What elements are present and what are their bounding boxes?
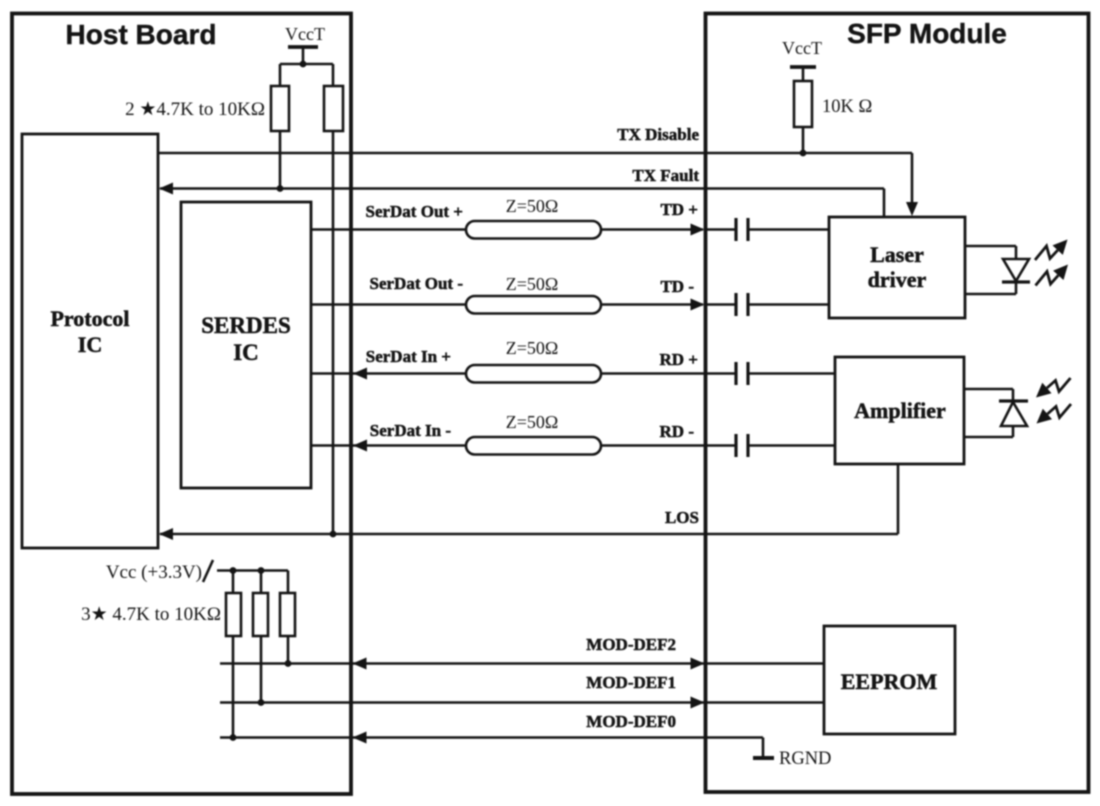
svg-text:TX Fault: TX Fault [632,166,699,185]
svg-text:RD +: RD + [660,350,699,369]
svg-text:10K Ω: 10K Ω [822,97,872,117]
svg-text:IC: IC [233,340,259,365]
svg-text:TD -: TD - [660,277,694,296]
svg-text:driver: driver [868,267,927,292]
svg-text:Vcc (+3.3V): Vcc (+3.3V) [106,562,202,583]
svg-text:EEPROM: EEPROM [841,669,938,694]
svg-text:MOD-DEF1: MOD-DEF1 [586,673,676,692]
svg-text:VccT: VccT [782,38,822,58]
svg-text:Z=50Ω: Z=50Ω [506,338,559,358]
svg-text:SerDat Out +: SerDat Out + [365,202,463,221]
svg-text:TD +: TD + [660,200,698,219]
svg-text:Z=50Ω: Z=50Ω [506,274,559,294]
svg-text:SERDES: SERDES [201,313,290,338]
svg-text:3★ 4.7K to 10KΩ: 3★ 4.7K to 10KΩ [81,604,221,625]
svg-text:Z=50Ω: Z=50Ω [506,196,559,216]
svg-text:SerDat In -: SerDat In - [370,421,452,440]
svg-text:TX Disable: TX Disable [617,125,699,144]
svg-text:Z=50Ω: Z=50Ω [506,412,559,432]
svg-text:SFP Module: SFP Module [847,18,1007,49]
svg-text:LOS: LOS [665,508,699,527]
svg-text:Protocol: Protocol [50,306,129,331]
svg-text:MOD-DEF0: MOD-DEF0 [586,712,676,731]
svg-text:Host Board: Host Board [66,19,217,50]
svg-text:Amplifier: Amplifier [854,398,946,423]
svg-text:VccT: VccT [285,24,325,44]
svg-text:IC: IC [78,332,102,357]
svg-text:2 ★4.7K to 10KΩ: 2 ★4.7K to 10KΩ [125,99,265,120]
svg-text:Laser: Laser [870,242,924,267]
svg-text:RD -: RD - [660,422,695,441]
svg-text:MOD-DEF2: MOD-DEF2 [586,635,676,654]
svg-text:RGND: RGND [779,749,831,769]
svg-text:SerDat In +: SerDat In + [366,347,451,366]
svg-text:SerDat Out -: SerDat Out - [370,274,464,293]
